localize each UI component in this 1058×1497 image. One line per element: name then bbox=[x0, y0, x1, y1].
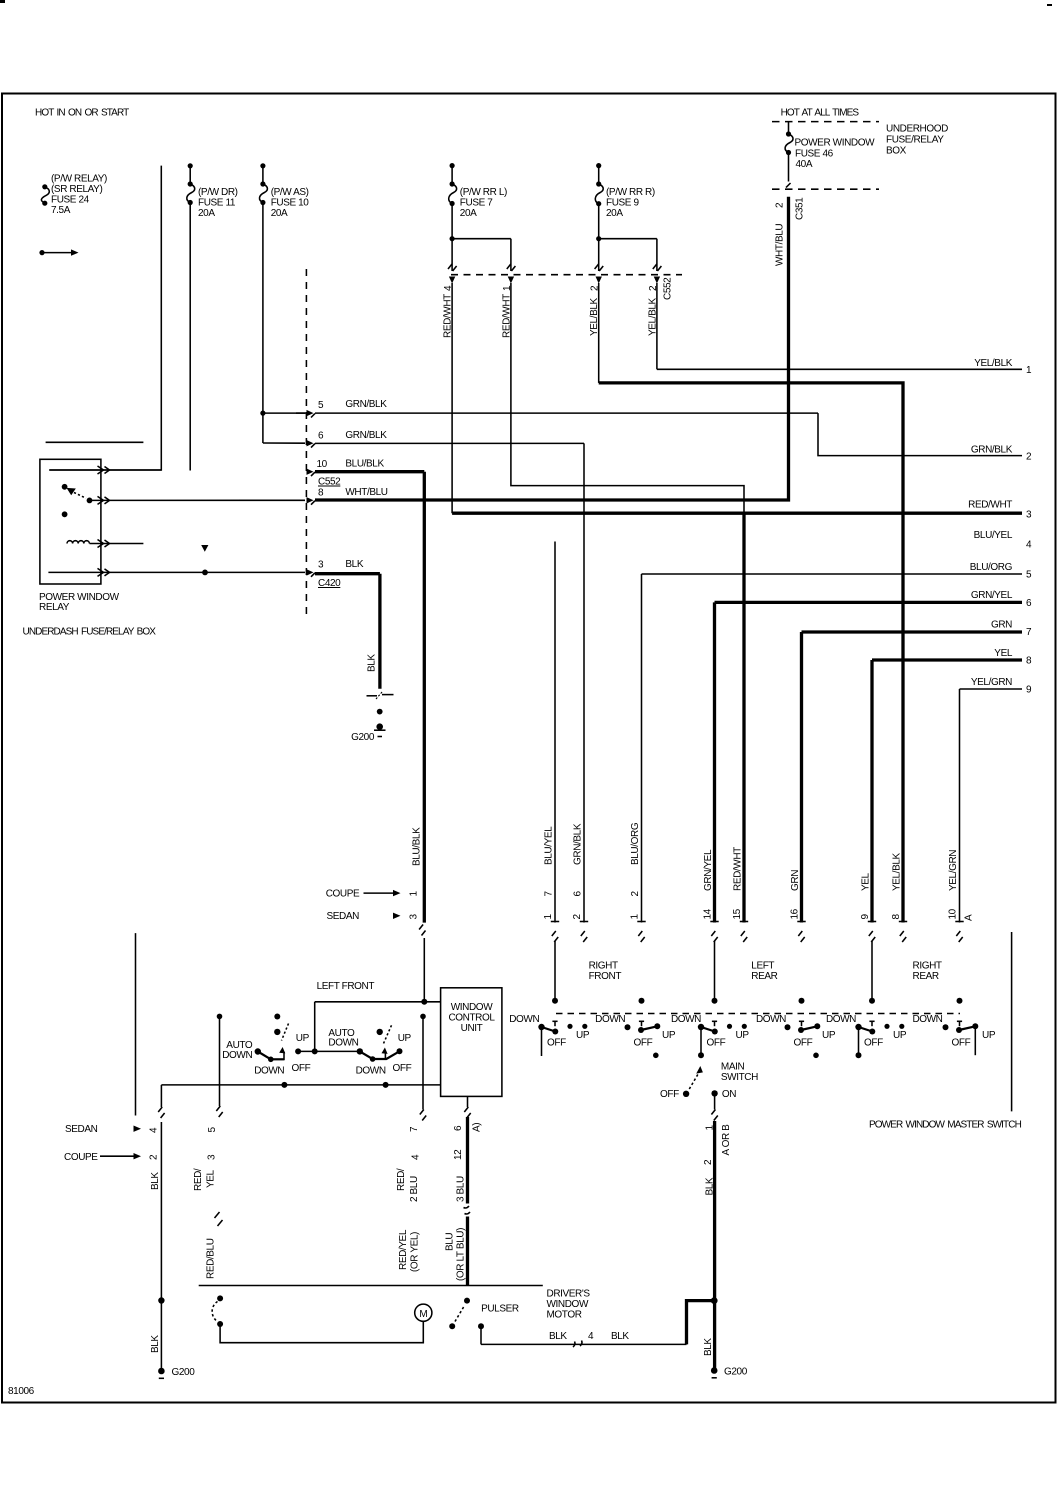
svg-text:YEL/BLK: YEL/BLK bbox=[892, 852, 903, 891]
connector C552 top dashed line bbox=[451, 274, 682, 276]
svg-text:8: 8 bbox=[318, 488, 324, 499]
wire BLU thick upper segment bbox=[466, 1117, 469, 1204]
svg-text:YEL/GRN: YEL/GRN bbox=[948, 850, 959, 891]
svg-text:3 BLU: 3 BLU bbox=[456, 1176, 467, 1202]
svg-text:ON: ON bbox=[722, 1089, 736, 1100]
svg-text:YEL: YEL bbox=[861, 872, 872, 891]
fuse FUSE 7 (P/W RR L) 20A bbox=[449, 163, 507, 219]
relay coil bbox=[67, 541, 89, 544]
svg-text:GRN/YEL: GRN/YEL bbox=[703, 849, 714, 891]
svg-text:DOWN: DOWN bbox=[912, 1014, 942, 1025]
svg-text:20A: 20A bbox=[606, 208, 623, 219]
svg-text:A OR B: A OR B bbox=[721, 1124, 732, 1156]
svg-text:RED/YEL: RED/YEL bbox=[398, 1229, 409, 1270]
svg-text:BLK: BLK bbox=[703, 1338, 714, 1356]
svg-text:OFF: OFF bbox=[794, 1038, 813, 1049]
svg-text:2: 2 bbox=[149, 1154, 160, 1160]
svg-text:15: 15 bbox=[732, 908, 743, 919]
wire BLK from pulser bbox=[480, 1326, 482, 1344]
wire from bus down to relay pin 1 bbox=[49, 166, 161, 470]
svg-text:HOT IN ON OR START: HOT IN ON OR START bbox=[35, 108, 129, 119]
svg-text:2: 2 bbox=[1026, 452, 1032, 463]
ground G200 (middle) bbox=[351, 723, 385, 743]
svg-text:(P/W DR): (P/W DR) bbox=[198, 187, 238, 198]
connector chevrons on BLK wire bbox=[711, 1110, 717, 1121]
svg-text:M: M bbox=[419, 1309, 427, 1320]
svg-text:OFF: OFF bbox=[634, 1038, 653, 1049]
svg-text:RED/BLU: RED/BLU bbox=[206, 1238, 217, 1279]
svg-text:FRONT: FRONT bbox=[589, 971, 622, 982]
driver switch left: AUTO DOWN bbox=[222, 1014, 310, 1077]
exit 3 RED/WHT wire and label bbox=[452, 512, 1022, 515]
svg-text:RED/WHT: RED/WHT bbox=[733, 847, 744, 891]
underhood fuse/relay box dashed top bbox=[772, 121, 879, 123]
svg-text:81006: 81006 bbox=[8, 1386, 35, 1397]
svg-text:BLK: BLK bbox=[705, 1177, 716, 1195]
fuse FUSE 10 (P/W AS) 20A bbox=[259, 163, 309, 219]
svg-text:C420: C420 bbox=[318, 578, 341, 589]
junction node with motor ground bbox=[711, 1297, 718, 1304]
svg-text:OFF: OFF bbox=[547, 1038, 566, 1049]
svg-text:YEL: YEL bbox=[206, 1169, 217, 1188]
svg-text:UP: UP bbox=[662, 1030, 676, 1041]
svg-text:3: 3 bbox=[207, 1154, 218, 1160]
svg-text:PULSER: PULSER bbox=[481, 1304, 519, 1315]
option arrow symbol bbox=[201, 545, 208, 552]
svg-text:LEFT: LEFT bbox=[751, 961, 774, 972]
svg-text:A): A) bbox=[472, 1123, 483, 1132]
window control unit feed rail bbox=[315, 1001, 441, 1003]
relay pin 4 BLK row to C420 bbox=[48, 571, 305, 573]
wire RED/BLU column from node down through rail bbox=[420, 1014, 426, 1020]
switch unit 2 bbox=[595, 1014, 676, 1058]
wire UP contact to junction bbox=[298, 1050, 360, 1052]
C552 row pin 5 GRN/BLK bbox=[296, 399, 818, 418]
wire GRN/YEL resume into switch bbox=[714, 941, 716, 1001]
svg-text:8: 8 bbox=[1026, 656, 1032, 667]
svg-text:FUSE 9: FUSE 9 bbox=[606, 198, 639, 209]
svg-text:BLK: BLK bbox=[345, 559, 363, 570]
svg-text:6: 6 bbox=[318, 431, 324, 442]
svg-text:RED/WHT: RED/WHT bbox=[968, 500, 1012, 511]
exit 8 YEL wire and label bbox=[872, 658, 1022, 661]
svg-text:(P/W RR L): (P/W RR L) bbox=[460, 187, 507, 198]
svg-text:6: 6 bbox=[1026, 598, 1032, 609]
svg-text:6: 6 bbox=[453, 1125, 464, 1131]
svg-text:5: 5 bbox=[318, 400, 324, 411]
svg-text:DOWN: DOWN bbox=[756, 1014, 786, 1025]
svg-text:OFF: OFF bbox=[864, 1038, 883, 1049]
svg-text:GRN/BLK: GRN/BLK bbox=[573, 823, 584, 865]
underhood fuse/relay box dashed bottom bbox=[772, 188, 879, 190]
power window relay box bbox=[40, 459, 101, 584]
svg-text:20A: 20A bbox=[460, 208, 477, 219]
svg-text:CONTROL: CONTROL bbox=[448, 1013, 495, 1024]
svg-text:UNDERHOOD: UNDERHOOD bbox=[886, 124, 948, 135]
svg-text:FUSE 46: FUSE 46 bbox=[795, 149, 834, 160]
svg-text:POWER WINDOW: POWER WINDOW bbox=[795, 138, 876, 149]
svg-text:SEDAN: SEDAN bbox=[327, 911, 360, 922]
svg-text:UP: UP bbox=[822, 1030, 836, 1041]
svg-text:1: 1 bbox=[630, 914, 641, 920]
svg-text:DOWN: DOWN bbox=[328, 1038, 358, 1049]
wire branch to pin 5 bbox=[263, 412, 305, 414]
svg-text:WHT/BLU: WHT/BLU bbox=[775, 224, 786, 266]
wire fuse 11 down bbox=[189, 203, 191, 471]
svg-text:C552: C552 bbox=[318, 477, 341, 488]
svg-text:DOWN: DOWN bbox=[826, 1014, 856, 1025]
svg-text:OFF: OFF bbox=[292, 1063, 311, 1074]
svg-text:4: 4 bbox=[588, 1331, 594, 1342]
svg-text:G200: G200 bbox=[172, 1367, 196, 1378]
svg-text:COUPE: COUPE bbox=[64, 1152, 98, 1163]
wire RED/YEL column from node down bbox=[217, 1014, 223, 1020]
svg-text:UP: UP bbox=[398, 1033, 412, 1044]
svg-text:4: 4 bbox=[1026, 540, 1032, 551]
svg-text:FUSE 10: FUSE 10 bbox=[271, 198, 310, 209]
scan artifact top-left bbox=[0, 0, 5, 3]
relay contact lower dot bbox=[62, 511, 68, 517]
pulser switch bbox=[449, 1298, 519, 1330]
svg-text:RIGHT: RIGHT bbox=[589, 961, 618, 972]
wire GRN thick column bbox=[800, 632, 803, 923]
connector crossing pin 2 right bbox=[653, 264, 662, 271]
wire BLU/ORG column bbox=[641, 574, 643, 923]
fuse FUSE 11 (P/W DR) 20A bbox=[187, 163, 238, 219]
driver switch right: AUTO DOWN bbox=[356, 1025, 412, 1076]
junction node on BLK row bbox=[202, 570, 208, 576]
switch unit 6 bbox=[912, 1014, 995, 1055]
inline connector break on BLK wire bbox=[573, 1341, 582, 1348]
svg-text:GRN/YEL: GRN/YEL bbox=[971, 590, 1013, 601]
svg-text:C351: C351 bbox=[795, 197, 806, 220]
svg-text:RELAY: RELAY bbox=[39, 602, 70, 613]
svg-text:2: 2 bbox=[630, 891, 641, 897]
svg-text:SWITCH: SWITCH bbox=[721, 1072, 758, 1083]
svg-text:G200: G200 bbox=[724, 1367, 748, 1378]
svg-text:BLU: BLU bbox=[445, 1233, 456, 1251]
svg-text:REAR: REAR bbox=[913, 971, 939, 982]
svg-text:BLU/ORG: BLU/ORG bbox=[630, 822, 641, 865]
svg-text:10: 10 bbox=[317, 459, 328, 470]
svg-text:8: 8 bbox=[891, 914, 902, 920]
fuse FUSE 9 (P/W RR R) 20A bbox=[595, 163, 655, 219]
svg-text:5: 5 bbox=[207, 1127, 218, 1133]
wire fuse 7 down, junction, jog right bbox=[451, 204, 453, 272]
connector crossing pin 4 bbox=[448, 264, 457, 271]
svg-text:SEDAN: SEDAN bbox=[65, 1124, 98, 1135]
connector chevron below fuse 46 bbox=[786, 183, 791, 188]
wire BLU/YEL column bbox=[554, 542, 556, 923]
svg-text:(P/W RR R): (P/W RR R) bbox=[606, 187, 655, 198]
wire YEL/BLK pin2 down thin then thick jog right bbox=[598, 283, 600, 383]
connector C552 left dashed line bbox=[305, 269, 307, 617]
svg-text:DOWN: DOWN bbox=[254, 1066, 284, 1077]
short bus line above relay box bbox=[46, 441, 144, 443]
svg-text:DOWN: DOWN bbox=[595, 1014, 625, 1025]
svg-text:10: 10 bbox=[948, 908, 959, 919]
switch unit 3 left rear bbox=[671, 1014, 749, 1058]
svg-text:(P/W RELAY): (P/W RELAY) bbox=[51, 174, 107, 185]
svg-text:YEL: YEL bbox=[994, 648, 1013, 659]
node below connector bbox=[377, 709, 383, 715]
svg-text:BLK: BLK bbox=[150, 1172, 161, 1190]
svg-text:FUSE 11: FUSE 11 bbox=[198, 198, 236, 209]
relay contact upper dot bbox=[62, 484, 68, 490]
svg-text:BLK: BLK bbox=[367, 654, 378, 672]
wire RED/WHT pin1 down and right bbox=[511, 283, 744, 513]
svg-text:7: 7 bbox=[409, 1126, 420, 1132]
wire fuse 10 down with branches to C552 pins 5 and 6 bbox=[262, 203, 264, 444]
driver's window motor top rail bbox=[199, 1285, 543, 1287]
relay moving contact dashed lever bbox=[70, 491, 86, 499]
svg-text:BLK: BLK bbox=[150, 1335, 161, 1353]
svg-text:BLU/YEL: BLU/YEL bbox=[544, 826, 555, 865]
svg-text:1: 1 bbox=[543, 914, 554, 920]
svg-text:OFF: OFF bbox=[660, 1089, 679, 1100]
wire YEL/GRN column bbox=[959, 689, 961, 923]
svg-text:BLU/ORG: BLU/ORG bbox=[970, 562, 1013, 573]
main switch bbox=[660, 1062, 758, 1101]
svg-text:3: 3 bbox=[409, 914, 420, 920]
svg-text:GRN/BLK: GRN/BLK bbox=[345, 430, 387, 441]
svg-text:2: 2 bbox=[775, 202, 786, 208]
svg-text:9: 9 bbox=[860, 914, 871, 920]
switch unit 5 right rear bbox=[826, 1014, 907, 1058]
relay pin 1 row bbox=[49, 469, 161, 471]
inline connector break bbox=[464, 1206, 471, 1214]
svg-text:MOTOR: MOTOR bbox=[547, 1310, 582, 1321]
C420 row pin 3 BLK bbox=[307, 559, 380, 589]
svg-text:5: 5 bbox=[1026, 570, 1032, 581]
switch unit 1 right front bbox=[509, 1014, 590, 1056]
relay coil pin row bbox=[90, 543, 144, 545]
svg-text:2: 2 bbox=[703, 1159, 714, 1165]
svg-text:G200: G200 bbox=[351, 732, 375, 743]
svg-text:9: 9 bbox=[1026, 685, 1032, 696]
svg-text:GRN: GRN bbox=[790, 870, 801, 891]
connector crossing pin 1 bbox=[507, 264, 516, 271]
svg-text:COUPE: COUPE bbox=[326, 889, 360, 900]
wire from rail down to auto-down switch UP contact bbox=[314, 1002, 316, 1052]
connector chevrons bbox=[420, 1110, 426, 1121]
scan artifact top-right bbox=[1047, 4, 1052, 6]
svg-text:BLK: BLK bbox=[549, 1331, 567, 1342]
svg-text:DOWN: DOWN bbox=[671, 1014, 701, 1025]
svg-text:POWER WINDOW MASTER SWITCH: POWER WINDOW MASTER SWITCH bbox=[869, 1120, 1022, 1131]
svg-text:C552: C552 bbox=[663, 277, 674, 300]
exit 7 GRN wire and label bbox=[802, 630, 1023, 633]
window control unit box bbox=[441, 988, 502, 1097]
svg-text:OFF: OFF bbox=[952, 1038, 971, 1049]
svg-text:DOWN: DOWN bbox=[509, 1014, 539, 1025]
svg-text:(P/W AS): (P/W AS) bbox=[271, 187, 309, 198]
wire branch to pin 6 bbox=[263, 442, 305, 444]
svg-text:RIGHT: RIGHT bbox=[913, 961, 942, 972]
svg-text:A: A bbox=[964, 914, 975, 921]
svg-text:BLU/YEL: BLU/YEL bbox=[974, 530, 1013, 541]
wire GRN/YEL thick column bbox=[713, 602, 716, 922]
svg-text:REAR: REAR bbox=[751, 971, 777, 982]
arrow symbol below fuse 24 bbox=[39, 249, 78, 255]
svg-text:2: 2 bbox=[572, 914, 583, 920]
wire BLK resume down to ground bbox=[160, 1122, 162, 1371]
wire fuse 9 down, junction, jog right bbox=[598, 204, 600, 271]
svg-text:20A: 20A bbox=[271, 208, 288, 219]
svg-text:3: 3 bbox=[1026, 510, 1032, 521]
svg-text:(OR LT BLU): (OR LT BLU) bbox=[456, 1228, 467, 1281]
svg-text:RED/: RED/ bbox=[193, 1168, 204, 1191]
master switch connector chevrons bbox=[552, 931, 963, 942]
wire RED/WHT thick column bbox=[742, 513, 745, 922]
wire BLU/BLK thick column down bbox=[423, 472, 426, 923]
wire BLK column: rail corner down to ground bbox=[160, 1085, 162, 1107]
svg-text:3: 3 bbox=[318, 560, 324, 571]
wire YEL/BLK pin2b down and right to exit 1 bbox=[656, 283, 658, 369]
svg-text:20A: 20A bbox=[198, 208, 215, 219]
wire WHT/BLU thick from C351 down and left to relay bbox=[315, 197, 789, 500]
svg-text:12: 12 bbox=[453, 1149, 464, 1160]
svg-text:1: 1 bbox=[1026, 365, 1032, 376]
exit 5 BLU/ORG wire and label bbox=[642, 573, 1023, 575]
svg-text:UP: UP bbox=[982, 1030, 996, 1041]
svg-text:UNDERDASH FUSE/RELAY BOX: UNDERDASH FUSE/RELAY BOX bbox=[23, 627, 157, 638]
switch feed nodes bbox=[552, 998, 558, 1004]
svg-text:6: 6 bbox=[573, 891, 584, 897]
svg-text:40A: 40A bbox=[796, 159, 813, 170]
svg-text:2 BLU: 2 BLU bbox=[409, 1176, 420, 1202]
svg-text:UP: UP bbox=[576, 1030, 590, 1041]
fuse FUSE 24 (P/W RELAY)(SR RELAY) 7.5A bbox=[41, 174, 107, 217]
wire BLK thick down to ground bbox=[713, 1121, 716, 1371]
svg-text:7: 7 bbox=[1026, 627, 1032, 638]
connector chevrons bbox=[216, 1106, 222, 1117]
svg-text:GRN/BLK: GRN/BLK bbox=[971, 445, 1013, 456]
wire BLK thick up to master switch ground line bbox=[687, 1301, 715, 1345]
motor internal switch bbox=[212, 1295, 423, 1342]
wire YEL thick column bbox=[870, 660, 873, 923]
svg-text:WINDOW: WINDOW bbox=[547, 1299, 589, 1310]
svg-text:OFF: OFF bbox=[707, 1038, 726, 1049]
svg-text:YEL/BLK: YEL/BLK bbox=[974, 358, 1013, 369]
lower rail to window control unit bbox=[161, 1084, 440, 1086]
wire RED/WHT pin4 down to row 3 bbox=[451, 283, 453, 513]
svg-text:BLU/BLK: BLU/BLK bbox=[345, 459, 384, 470]
mechanical link dashed rail bbox=[556, 1013, 960, 1015]
svg-text:UP: UP bbox=[736, 1030, 750, 1041]
connector crossing pin 2 left bbox=[595, 264, 604, 271]
svg-text:BLK: BLK bbox=[611, 1331, 629, 1342]
svg-text:BOX: BOX bbox=[886, 146, 907, 157]
svg-text:FUSE/RELAY: FUSE/RELAY bbox=[886, 135, 944, 146]
wire YEL resume into switch bbox=[871, 941, 873, 1001]
master switch bracket left bbox=[135, 933, 137, 1115]
svg-text:DOWN: DOWN bbox=[356, 1066, 386, 1077]
svg-text:GRN: GRN bbox=[991, 620, 1012, 631]
svg-text:BLU/BLK: BLU/BLK bbox=[412, 827, 423, 866]
svg-text:RED/: RED/ bbox=[396, 1168, 407, 1191]
svg-text:1: 1 bbox=[409, 891, 420, 897]
alternate marks bbox=[215, 1212, 223, 1226]
wire BLK from main switch bbox=[714, 1096, 716, 1109]
wire BLU thick lower segment to motor rail bbox=[466, 1217, 469, 1286]
svg-text:WINDOW: WINDOW bbox=[451, 1002, 493, 1013]
wire BLU/YEL resume into switch bbox=[554, 941, 556, 1001]
svg-text:UP: UP bbox=[296, 1033, 310, 1044]
svg-text:GRN/BLK: GRN/BLK bbox=[345, 399, 387, 410]
svg-text:14: 14 bbox=[703, 908, 714, 919]
ground G200 (left) bbox=[158, 1367, 195, 1378]
junction node bbox=[158, 1297, 164, 1303]
svg-text:UNIT: UNIT bbox=[461, 1023, 483, 1034]
inline connector bar at ground wire bbox=[367, 692, 394, 700]
svg-text:7.5A: 7.5A bbox=[51, 205, 71, 216]
wire BLK thick down to ground bbox=[378, 574, 381, 689]
svg-text:LEFT FRONT: LEFT FRONT bbox=[317, 981, 375, 992]
svg-text:7: 7 bbox=[544, 891, 555, 897]
master switch bracket right bbox=[1011, 932, 1013, 1111]
switch unit 4 bbox=[756, 1014, 836, 1058]
connector chevrons on BLU/BLK wire bbox=[419, 925, 425, 936]
relay contact common dot bbox=[87, 498, 93, 504]
wire GRN/BLK to exit 2 bbox=[818, 413, 1022, 456]
svg-text:16: 16 bbox=[790, 908, 801, 919]
fuse FUSE 46 POWER WINDOW 40A bbox=[785, 122, 875, 182]
master switch connector terminals bbox=[551, 921, 964, 923]
svg-text:(OR YEL): (OR YEL) bbox=[410, 1232, 421, 1272]
svg-text:MAIN: MAIN bbox=[721, 1062, 745, 1073]
svg-text:HOT AT ALL TIMES: HOT AT ALL TIMES bbox=[781, 108, 860, 119]
relay pin 2 row to C552 pin 8 bbox=[90, 499, 306, 501]
exit 9 YEL/GRN wire and label bbox=[960, 688, 1023, 690]
svg-text:(SR RELAY): (SR RELAY) bbox=[51, 184, 102, 195]
connector chevrons bbox=[158, 1107, 164, 1118]
svg-text:WHT/BLU: WHT/BLU bbox=[345, 487, 387, 498]
svg-text:YEL/GRN: YEL/GRN bbox=[971, 677, 1012, 688]
ground G200 (right) bbox=[711, 1367, 748, 1378]
C552 row pin 6 GRN/BLK bbox=[307, 430, 585, 448]
wire BLU column from control unit box down to motor bbox=[467, 1096, 469, 1107]
motor M1 driver's window motor bbox=[415, 1304, 432, 1321]
svg-text:DOWN: DOWN bbox=[222, 1050, 252, 1061]
svg-text:UP: UP bbox=[893, 1030, 907, 1041]
svg-text:4: 4 bbox=[411, 1154, 422, 1160]
wire BLU/BLK resume to window control unit rail bbox=[423, 938, 425, 1002]
svg-text:FUSE 7: FUSE 7 bbox=[460, 198, 493, 209]
wire GRN/BLK column down to master switch bbox=[583, 443, 585, 922]
C552 row pin 10 BLU/BLK bbox=[307, 459, 425, 488]
svg-text:4: 4 bbox=[149, 1127, 160, 1133]
svg-text:FUSE 24: FUSE 24 bbox=[51, 195, 90, 206]
C552 row pin 8 WHT/BLU bbox=[307, 487, 388, 505]
svg-text:DRIVER'S: DRIVER'S bbox=[547, 1289, 591, 1300]
svg-text:OFF: OFF bbox=[393, 1063, 412, 1074]
exit 6 GRN/YEL wire and label bbox=[715, 601, 1023, 604]
